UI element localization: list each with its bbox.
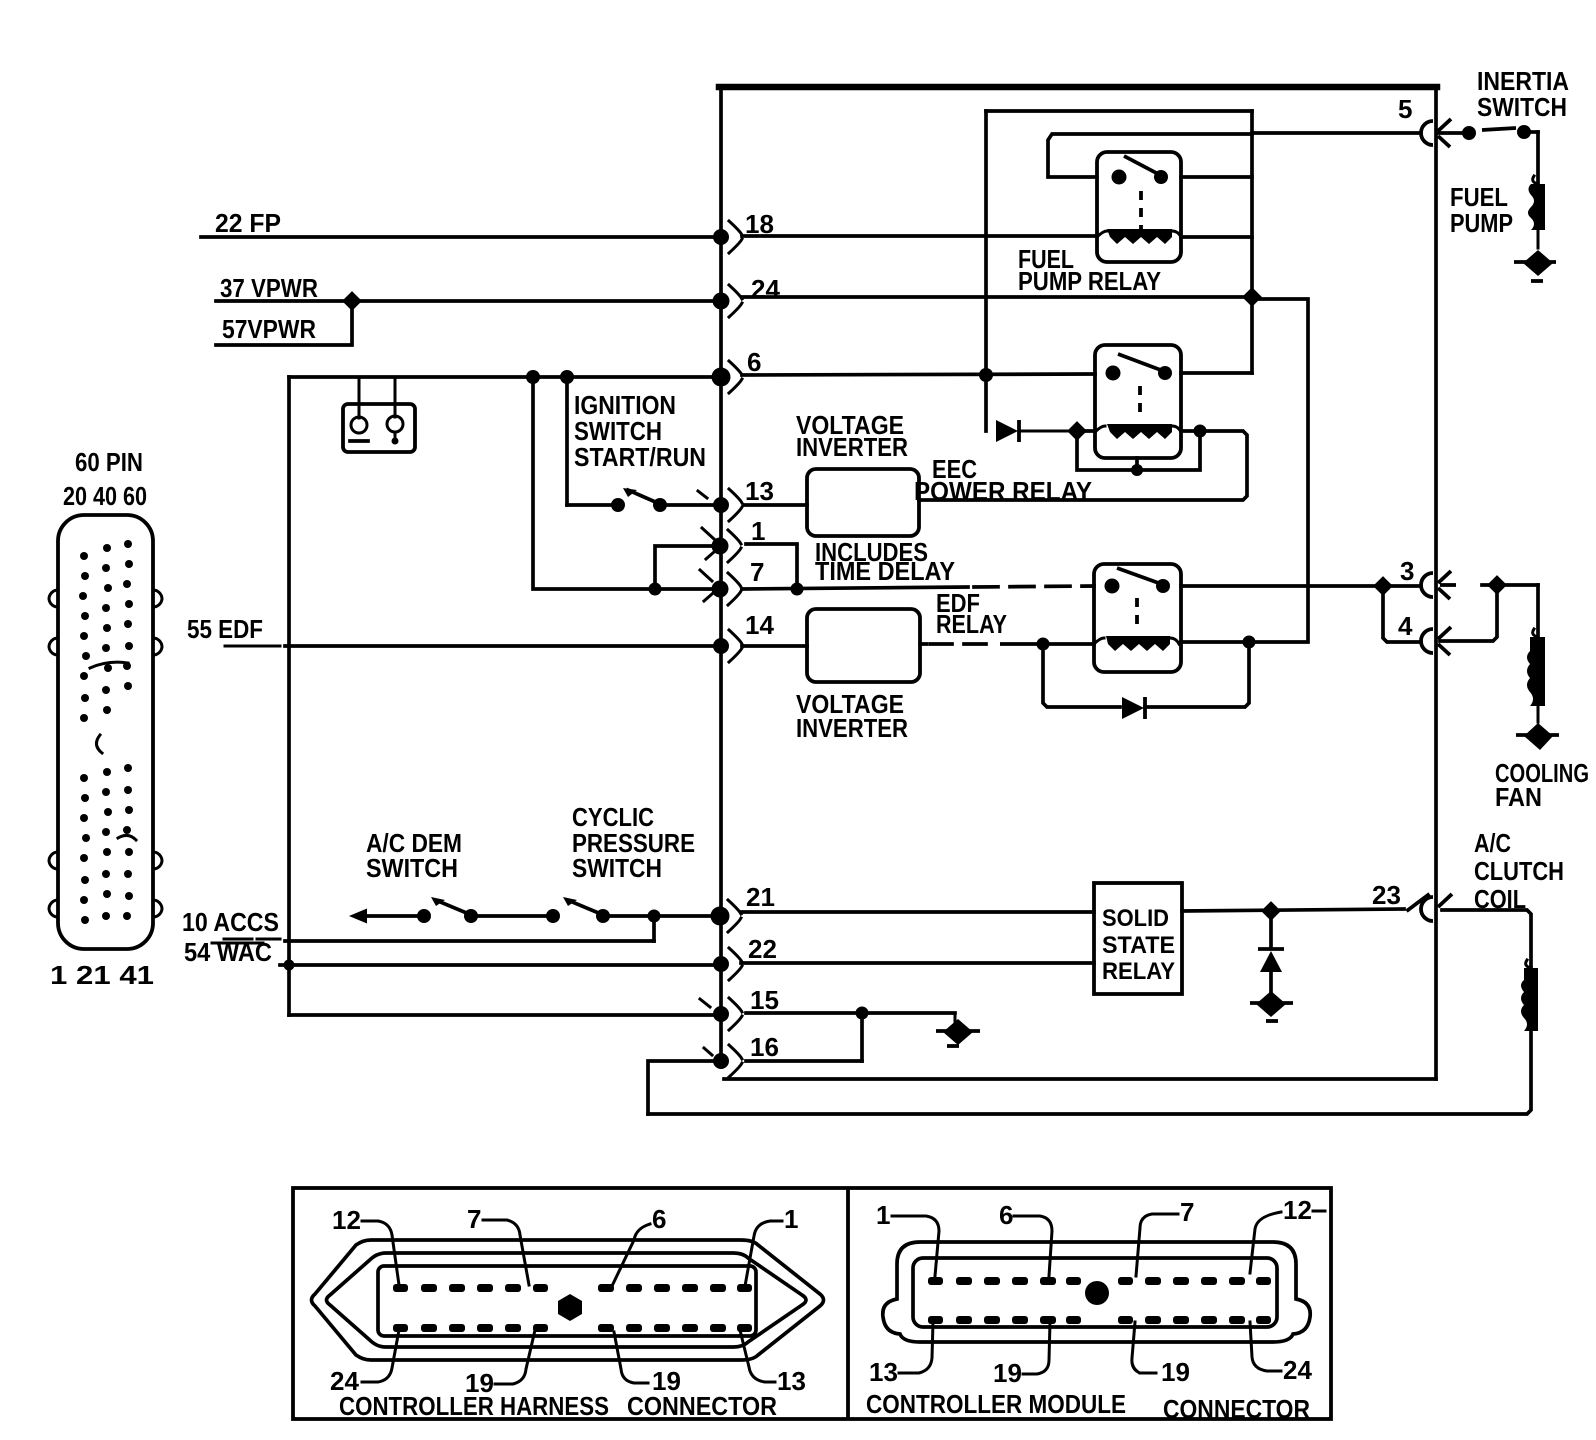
wire inverter2 dashes <box>928 642 1000 646</box>
ground fuel pump <box>1514 250 1556 281</box>
junction dot pin 3 wire <box>1373 576 1393 596</box>
svg-text:SOLID: SOLID <box>1102 905 1169 932</box>
wire 22 FP to pin 18 <box>201 235 718 239</box>
label 16 <box>750 1032 779 1062</box>
wire 37 VPWR to pin 24 <box>216 299 718 303</box>
wire to pin 21 <box>654 914 718 918</box>
solid state relay box <box>1094 883 1182 994</box>
label 55 EDF <box>187 614 280 646</box>
label CONTROLLER HARNESS <box>339 1391 609 1421</box>
junction dot WAC at left vertical <box>284 960 295 971</box>
pin 18 <box>713 221 742 253</box>
svg-text:3: 3 <box>1400 556 1414 586</box>
wire pin 13 to inverter <box>744 503 807 507</box>
label 20 40 60 <box>63 481 147 511</box>
connector 4 <box>1421 627 1451 655</box>
wire outer loop left vertical <box>984 111 988 431</box>
cooling fan motor element <box>1527 629 1545 722</box>
svg-text:CLUTCH: CLUTCH <box>1474 856 1564 886</box>
wire main bus vertical <box>719 86 723 1061</box>
svg-text:37 VPWR: 37 VPWR <box>220 273 318 303</box>
svg-text:7: 7 <box>750 557 764 587</box>
EDF diode loop below <box>1043 643 1249 719</box>
harness label 19 right <box>614 1332 681 1396</box>
junction dot pin15 right <box>856 1007 869 1020</box>
EEC relay coil <box>1095 424 1181 439</box>
svg-text:STATE: STATE <box>1102 932 1175 959</box>
svg-text:20 40 60: 20 40 60 <box>63 481 147 511</box>
wire pin 24 to fuel relay node <box>742 295 1248 299</box>
svg-text:INVERTER: INVERTER <box>796 713 908 743</box>
EDF relay contacts <box>1105 568 1171 594</box>
wire 10 ACCS <box>285 939 654 943</box>
svg-text:24: 24 <box>1283 1355 1312 1385</box>
label 24 <box>751 274 780 304</box>
svg-text:24: 24 <box>751 274 780 304</box>
ground below diode <box>1250 991 1293 1021</box>
diode EEC coil left <box>996 420 1070 442</box>
label INERTIA SWITCH <box>1477 66 1569 122</box>
wire diamond to coil <box>1077 429 1095 433</box>
label 5 <box>1398 94 1412 124</box>
svg-text:23: 23 <box>1372 880 1401 910</box>
label FUEL PUMP RELAY <box>1018 244 1161 296</box>
label 4 <box>1398 611 1413 641</box>
ground near pin 15 <box>936 1013 980 1046</box>
svg-text:6: 6 <box>999 1200 1013 1230</box>
connector 5 <box>1421 119 1462 147</box>
pin 7 <box>700 570 741 605</box>
label INCLUDES TIME DELAY <box>815 537 955 586</box>
controller module pin dashes row2 <box>928 1316 1271 1324</box>
wire SSR output to pin 23 switch <box>1182 909 1404 911</box>
wire connector 23 to clutch coil <box>1442 910 1531 968</box>
harness label 24 <box>330 1330 399 1396</box>
svg-text:60 PIN: 60 PIN <box>75 447 143 477</box>
junction dot EEC coil right <box>1194 425 1207 438</box>
junction dot pin7 left <box>649 583 662 596</box>
svg-text:TIME DELAY: TIME DELAY <box>815 556 955 586</box>
cyclic pressure switch <box>546 897 654 923</box>
pin 6 <box>712 361 743 393</box>
wire left tall vertical <box>287 377 291 1015</box>
ground cooling fan <box>1516 723 1559 750</box>
pin 21 <box>711 900 742 932</box>
label 54 WAC <box>184 937 272 967</box>
wire EEC top-right contact to node <box>1181 371 1252 375</box>
svg-text:SWITCH: SWITCH <box>572 853 662 883</box>
wire fuel relay top-right contact <box>1181 175 1252 179</box>
pin 1 <box>702 528 741 562</box>
svg-text:12: 12 <box>332 1205 361 1235</box>
svg-text:55 EDF: 55 EDF <box>187 614 263 644</box>
fuel pump motor element <box>1528 176 1545 248</box>
junction diamond EEC coil left <box>1067 421 1087 441</box>
wire connector 3 right <box>1482 583 1538 587</box>
svg-text:19: 19 <box>993 1358 1022 1388</box>
fuel pump relay coil <box>1097 229 1181 244</box>
svg-text:CONNECTOR: CONNECTOR <box>627 1391 777 1421</box>
svg-text:7: 7 <box>467 1204 481 1234</box>
inertia switch <box>1462 125 1538 140</box>
label 13 <box>745 476 774 506</box>
label 3 <box>1400 556 1414 586</box>
module label 6 <box>999 1200 1052 1276</box>
wire pin 14 to inverter2 <box>742 644 807 648</box>
svg-text:SWITCH: SWITCH <box>1477 92 1567 122</box>
svg-text:CONNECTOR: CONNECTOR <box>1163 1394 1310 1424</box>
60 pin connector body <box>49 515 162 949</box>
svg-text:10 ACCS: 10 ACCS <box>182 907 279 937</box>
wire fuel relay coil right <box>1181 235 1252 239</box>
label 22 FP <box>215 208 281 238</box>
module label 24 <box>1250 1322 1312 1385</box>
label 10 ACCS <box>182 907 280 939</box>
connector 3 <box>1421 571 1456 599</box>
EEC below loop <box>1077 431 1200 470</box>
label CONNECTOR left <box>627 1391 777 1421</box>
wire junction down to pin16 wire <box>860 1013 864 1061</box>
junction dot SSR output <box>1261 901 1281 921</box>
junction dot pin6 right <box>979 368 993 382</box>
label 1 <box>751 516 765 546</box>
wire pin7 left long <box>533 377 718 589</box>
wire pin 21 to SSR <box>741 910 1094 914</box>
wire pin1 right loop <box>746 544 797 589</box>
label IGNITION SWITCH START/RUN <box>574 390 706 472</box>
label VOLTAGE INVERTER lower <box>796 689 908 743</box>
battery box <box>343 377 415 452</box>
harness label 13 <box>740 1330 806 1396</box>
wire pin7 to EDF relay solid <box>742 587 968 589</box>
junction dot A on pin6 wire <box>526 370 540 384</box>
wire 57VPWR bracket <box>216 301 352 345</box>
module label 7 <box>1136 1197 1194 1276</box>
svg-text:RELAY: RELAY <box>1102 958 1175 985</box>
wire EEC coil right to inverter loop <box>919 431 1247 500</box>
wire pin 16 left loop <box>648 1061 718 1114</box>
relay FUEL PUMP RELAY box <box>1097 152 1181 262</box>
label 7 <box>750 557 764 587</box>
svg-text:PUMP: PUMP <box>1450 208 1513 238</box>
EEC relay dashed core <box>1138 386 1142 420</box>
wire outer loop top <box>986 109 1252 113</box>
wire lower right return <box>724 1077 1436 1081</box>
60 pin connector pin dots <box>79 540 133 924</box>
wire down to cooling fan <box>1536 585 1540 637</box>
svg-text:1: 1 <box>751 516 765 546</box>
svg-text:13: 13 <box>777 1366 806 1396</box>
svg-text:14: 14 <box>745 610 774 640</box>
svg-text:SWITCH: SWITCH <box>366 853 458 883</box>
wire right vertical node to 24 junction <box>1250 111 1254 373</box>
wire clutch coil bottom long <box>648 1031 1531 1114</box>
svg-text:13: 13 <box>869 1357 898 1387</box>
label EDF RELAY <box>936 588 1007 639</box>
svg-text:18: 18 <box>745 209 774 239</box>
svg-text:19: 19 <box>1161 1357 1190 1387</box>
svg-text:POWER RELAY: POWER RELAY <box>914 476 1092 506</box>
wire stub 10 ACCS up <box>652 916 656 941</box>
svg-text:1: 1 <box>876 1200 890 1230</box>
svg-text:22: 22 <box>748 934 777 964</box>
voltage inverter box 1 <box>807 469 919 536</box>
label EEC POWER RELAY <box>914 454 1092 506</box>
wire top feed horizontal thick <box>719 87 1437 1079</box>
module label 13 <box>869 1322 933 1387</box>
ignition switch <box>567 377 718 512</box>
controller module pin dashes row1 <box>928 1277 1271 1285</box>
label 60 PIN <box>75 447 143 477</box>
harness label 19 left <box>465 1330 535 1398</box>
svg-text:5: 5 <box>1398 94 1412 124</box>
EEC relay contacts <box>1106 354 1173 381</box>
svg-text:PUMP RELAY: PUMP RELAY <box>1018 266 1161 296</box>
label 21 <box>746 882 775 912</box>
EDF relay dashed core <box>1135 598 1139 630</box>
svg-text:57VPWR: 57VPWR <box>222 314 316 344</box>
wire between switches <box>471 914 553 918</box>
label 22 <box>748 934 777 964</box>
junction dot B on pin6 wire <box>560 370 574 384</box>
wire pin 16 right <box>746 1059 862 1063</box>
svg-text:START/RUN: START/RUN <box>574 442 706 472</box>
harness label 6 <box>612 1204 666 1286</box>
svg-text:CONTROLLER MODULE: CONTROLLER MODULE <box>866 1389 1126 1419</box>
svg-text:16: 16 <box>750 1032 779 1062</box>
wire to connector 4 <box>1383 586 1421 642</box>
controller harness connector outline middle <box>327 1253 807 1347</box>
label CONTROLLER MODULE <box>866 1389 1126 1419</box>
relay EEC POWER RELAY box <box>1095 345 1181 458</box>
svg-text:A/C: A/C <box>1474 828 1511 858</box>
wire EDF coil right <box>1181 640 1249 644</box>
wire pin 6 horizontal <box>289 375 718 379</box>
junction dot before pin 21 <box>648 910 661 923</box>
svg-text:12: 12 <box>1283 1195 1312 1225</box>
label COOLING FAN <box>1495 758 1589 812</box>
svg-text:1: 1 <box>784 1204 798 1234</box>
a/c clutch coil element <box>1521 960 1538 1031</box>
wire pin7 to EDF relay dashed <box>974 586 1094 587</box>
label 57VPWR <box>222 314 316 344</box>
relay EDF RELAY box <box>1094 564 1181 672</box>
wire pin 6 to EEC relay <box>742 374 1095 375</box>
fuel pump relay dashed core <box>1139 191 1143 232</box>
junction on VPWR wire <box>342 291 362 311</box>
label SOLID STATE RELAY <box>1102 905 1175 985</box>
svg-text:1 21 41: 1 21 41 <box>50 960 154 990</box>
fuel pump relay contacts <box>1112 156 1169 185</box>
controller harness pin dashes row1 <box>393 1284 752 1292</box>
wire 54 WAC to pin 22 <box>280 963 718 967</box>
controller harness pin dashes row2 <box>393 1324 752 1332</box>
wire fuel relay top-left contact loop <box>1048 134 1252 177</box>
pin 23 switch blade <box>1408 895 1428 910</box>
pin 16 <box>704 1045 742 1077</box>
controller module connector outline outer <box>883 1242 1310 1342</box>
label 18 <box>745 209 774 239</box>
wire 55 EDF to pin 14 <box>285 644 718 648</box>
wire pin 15 right <box>746 1011 955 1015</box>
svg-text:INVERTER: INVERTER <box>796 432 908 462</box>
controller harness pin field rect <box>378 1266 756 1336</box>
wire pin 22 to SSR <box>741 961 1094 965</box>
harness label 1 <box>745 1204 798 1286</box>
controller harness center post <box>558 1294 582 1321</box>
pin 13 <box>698 489 742 521</box>
junction dot right of connector 3 <box>1487 575 1507 595</box>
wire EEC coil right <box>1181 429 1200 433</box>
diode to ground below SSR <box>1258 911 1284 1001</box>
bottom panel frame <box>293 1188 1331 1419</box>
svg-text:13: 13 <box>745 476 774 506</box>
svg-text:7: 7 <box>1180 1197 1194 1227</box>
pin 15 <box>700 998 742 1030</box>
junction dot 24 wire <box>1242 287 1262 307</box>
label A/C CLUTCH COIL <box>1474 828 1564 914</box>
svg-text:CONTROLLER HARNESS: CONTROLLER HARNESS <box>339 1391 609 1421</box>
wire EDF top contact to connector 3 <box>1181 584 1421 588</box>
module label 1 <box>876 1200 939 1276</box>
svg-text:15: 15 <box>750 985 779 1015</box>
connector 23 <box>1421 894 1452 921</box>
controller harness connector outline outer <box>312 1240 824 1360</box>
controller module inner rect <box>913 1258 1277 1327</box>
pin 14 <box>713 630 742 662</box>
wire EDF coil right to top node <box>1249 299 1308 642</box>
label 6 <box>747 347 761 377</box>
svg-text:22 FP: 22 FP <box>215 208 281 238</box>
wire connector 4 right up <box>1440 585 1497 641</box>
svg-text:6: 6 <box>747 347 761 377</box>
svg-text:21: 21 <box>746 882 775 912</box>
label CONNECTOR right <box>1163 1394 1310 1424</box>
wire pin1 left loop <box>655 546 718 589</box>
harness label 7 <box>467 1204 529 1285</box>
label CYCLIC PRESSURE SWITCH <box>572 802 695 883</box>
module label 12 <box>1250 1195 1325 1273</box>
pin 24 <box>713 285 743 317</box>
svg-text:FAN: FAN <box>1495 782 1542 812</box>
EEC center stub <box>1131 458 1143 476</box>
harness label 12 <box>332 1205 399 1285</box>
junction dot pin7 right <box>791 583 804 596</box>
wire to connector 5 <box>1252 131 1421 135</box>
EDF relay coil <box>1094 636 1179 651</box>
label A/C DEM SWITCH <box>366 828 462 883</box>
voltage inverter box 2 <box>807 609 920 682</box>
controller module center post <box>1085 1281 1109 1305</box>
label VOLTAGE INVERTER upper <box>796 410 908 462</box>
module label 19 b <box>1132 1322 1190 1387</box>
A/C DEM switch <box>349 897 478 924</box>
junction dot EDF coil right <box>1243 636 1256 649</box>
wire inverter2 to EDF coil solid <box>920 642 1094 646</box>
label 1 21 41 <box>50 960 154 990</box>
label 14 <box>745 610 774 640</box>
pin 22 <box>713 948 742 980</box>
module label 19 a <box>993 1322 1050 1388</box>
junction dot EDF coil left <box>1037 638 1050 651</box>
label 15 <box>750 985 779 1015</box>
wire pin18 into fuel relay coil handled by pin18 wire <box>742 234 1097 238</box>
label FUEL PUMP <box>1450 182 1513 238</box>
wire inertia to fuel pump <box>1536 132 1540 184</box>
label 23 <box>1372 880 1401 910</box>
wire to pin 15 <box>289 1013 718 1017</box>
svg-text:RELAY: RELAY <box>936 609 1007 639</box>
label 37 VPWR <box>220 273 318 303</box>
svg-text:6: 6 <box>652 1204 666 1234</box>
svg-text:4: 4 <box>1398 611 1413 641</box>
